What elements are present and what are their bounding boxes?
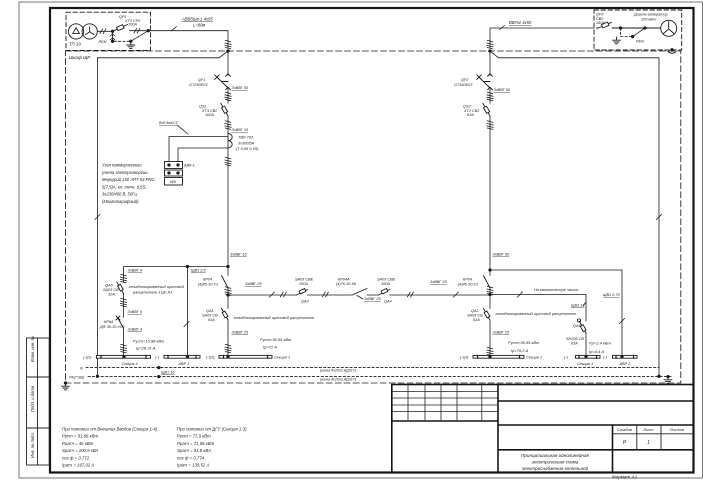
svg-text:PEN: PEN [99, 40, 107, 44]
feeder note block2 [177, 427, 247, 468]
svg-text:100А: 100А [128, 22, 137, 26]
svg-text:(-1(2)-: (-1(2)- [83, 355, 93, 359]
node at switch [111, 30, 114, 33]
PEN split wire right [490, 51, 659, 376]
svg-text:Стадия: Стадия [617, 427, 633, 432]
busbar AVR1 [164, 355, 200, 358]
svg-text:Iрасч = 139,52 А: Iрасч = 139,52 А [177, 463, 209, 468]
svg-text:ЗхВВГ 50: ЗхВВГ 50 [494, 88, 512, 92]
PEN to line [633, 28, 645, 37]
transformer box dashed [66, 12, 151, 50]
wire marks [280, 292, 286, 297]
tie line section1-2 [228, 294, 490, 296]
svg-text:ТВЛ-783: ТВЛ-783 [238, 136, 254, 140]
node left bus [226, 265, 229, 268]
svg-text:ЗхВВГ 25: ЗхВВГ 25 [493, 331, 511, 335]
cabinet ShchR dashed outline [66, 51, 681, 383]
svg-text:Wh: Wh [170, 179, 177, 184]
svg-text:QА2: QА2 [471, 309, 479, 313]
switch QR2 blade with fuse [597, 22, 661, 28]
svg-text:(-1: (-1 [564, 355, 568, 359]
switch QA4b [379, 290, 390, 296]
svg-text:(Многотарифный): (Многотарифный) [102, 199, 139, 204]
squiggle [120, 274, 126, 283]
cable squiggle [225, 40, 231, 49]
svg-text:ЗхВВГ 25: ЗхВВГ 25 [430, 280, 448, 284]
squiggle [225, 121, 231, 130]
wire transformer to switch [97, 30, 112, 32]
svg-text:КР04А: КР04А [338, 278, 350, 282]
squiggle [487, 92, 493, 101]
wire mark [656, 214, 661, 219]
svg-text:SА03 СВ: SА03 СВ [467, 314, 483, 318]
branch to QA5 [490, 295, 586, 303]
breaker QF2 [477, 74, 493, 90]
meter test box AVK-1 [165, 162, 183, 186]
svg-text:(шина 4х25х3 АД31Т): (шина 4х25х3 АД31Т) [320, 378, 356, 382]
svg-text:63А: 63А [473, 318, 480, 322]
svg-text:Секция 4: Секция 4 [122, 362, 138, 366]
bus ShchV1 horizontal [124, 267, 229, 277]
svg-text:Руст=36,65 кВт: Руст=36,65 кВт [260, 337, 292, 342]
svg-text:(Т-0,66 0,5S): (Т-0,66 0,5S) [236, 147, 259, 151]
svg-text:-незаблокированный щитовой рас: -незаблокированный щитовой расцепитель [495, 311, 576, 316]
svg-text:При питании от ДГУ (Секция 1-3: При питании от ДГУ (Секция 1-3) [177, 427, 247, 432]
svg-text:электроснабжения котельной: электроснабжения котельной [522, 465, 589, 471]
svg-text:Инв. № подл.: Инв. № подл. [30, 432, 35, 458]
riser AVR1 [187, 267, 189, 356]
svg-text:100 кВт: 100 кВт [641, 18, 656, 22]
svg-text:3х230/400 В, 50Гц: 3х230/400 В, 50Гц [102, 192, 137, 197]
svg-text:SА03 СВ: SА03 СВ [202, 314, 218, 318]
svg-text:АВР 1: АВР 1 [178, 362, 190, 366]
PEN dashed wire [621, 36, 633, 38]
svg-text:Sрасч = 100,9 кВА: Sрасч = 100,9 кВА [62, 448, 98, 453]
svg-text:Лист: Лист [642, 427, 654, 432]
svg-text:Sрасч = 91,8 кВА: Sрасч = 91,8 кВА [177, 448, 211, 453]
svg-text:ВВГнг 4х50: ВВГнг 4х50 [509, 20, 532, 25]
svg-text:Секция 1: Секция 1 [274, 355, 290, 359]
svg-text:QА1: QА1 [206, 309, 214, 313]
svg-text:Подп. и дата: Подп. и дата [30, 385, 35, 412]
svg-text:ЗхВВГ 25: ЗхВВГ 25 [245, 282, 263, 286]
svg-text:SА03 СВЕ: SА03 СВЕ [295, 278, 314, 282]
svg-text:ЩВ1 2,5: ЩВ1 2,5 [191, 269, 206, 273]
node [157, 366, 160, 369]
svg-text:На механическую часть: На механическую часть [534, 287, 578, 292]
wire PEN to line [131, 31, 149, 42]
node box exit [147, 29, 150, 32]
current transformer TA1 [228, 134, 232, 148]
svg-text:КР04: КР04 [463, 278, 472, 282]
svg-text:ТП-19: ТП-19 [69, 42, 81, 47]
svg-text:Секция 2: Секция 2 [526, 355, 543, 359]
svg-text:ОТ250Е03: ОТ250Е03 [189, 83, 208, 87]
svg-text:(-1: (-1 [603, 355, 607, 359]
wire mark [619, 318, 624, 323]
svg-text:ЗхВВГ 50: ЗхВВГ 50 [232, 86, 250, 90]
node PE earth right [666, 375, 669, 378]
svg-text:ЗхВВГ 16: ЗхВВГ 16 [230, 253, 248, 257]
breaker QF1 [215, 74, 231, 90]
svg-text:8х0,5кв2,5: 8х0,5кв2,5 [159, 121, 178, 125]
svg-text:63А: 63А [571, 342, 578, 346]
cable label lead [172, 27, 177, 31]
wire marks [100, 29, 106, 34]
node [186, 355, 189, 358]
title block small grid [392, 385, 498, 422]
node [620, 355, 623, 358]
generator box dashed [594, 10, 682, 50]
svg-text:(-1(2)-: (-1(2)- [460, 355, 470, 359]
svg-text:ЗхВВГ 4: ЗхВВГ 4 [128, 269, 143, 273]
wire mark [184, 321, 189, 326]
CT secondary wires [169, 137, 228, 162]
wire QA5 [585, 302, 587, 356]
bus PE dashed [88, 376, 671, 378]
svg-text:QА5: QА5 [573, 324, 581, 328]
wire [227, 88, 229, 103]
squiggle [120, 344, 126, 353]
wire mark [269, 292, 274, 297]
svg-text:КР04: КР04 [203, 278, 212, 282]
svg-text:Принципиальная однолинейная: Принципиальная однолинейная [521, 452, 589, 458]
breaker KR6A [116, 316, 124, 328]
svg-text:1: 1 [647, 440, 650, 446]
svg-text:Шкаф ЩР: Шкаф ЩР [69, 55, 91, 60]
svg-text:3х300/5А: 3х300/5А [238, 141, 255, 145]
node [584, 355, 587, 358]
svg-text:Руст = 77,9 кВт: Руст = 77,9 кВт [177, 434, 211, 439]
transformer T1 [69, 24, 98, 39]
svg-text:Руст=36,95 кВт: Руст=36,95 кВт [508, 340, 540, 345]
bus N dashed [86, 367, 659, 369]
switch QA2 [489, 295, 491, 358]
svg-text:Ррасч = 71,06 кВт: Ррасч = 71,06 кВт [177, 441, 215, 446]
squiggle [487, 121, 493, 130]
bus to AVR2 [490, 270, 622, 356]
svg-text:Ррасч = 46 кВт: Ррасч = 46 кВт [62, 441, 94, 446]
squiggle [225, 92, 231, 101]
svg-text:-незаблокированный щитовой рас: -незаблокированный щитовой расцепитель [233, 315, 314, 320]
svg-text:ЗхВВГ 25: ЗхВВГ 25 [232, 331, 250, 335]
wire marks [134, 28, 140, 33]
squiggle [225, 287, 231, 296]
switch QA4 [352, 289, 367, 296]
svg-text:Iр=4,4 А: Iр=4,4 А [589, 349, 604, 354]
svg-text:Руст=15,98 кВт: Руст=15,98 кВт [133, 339, 165, 344]
wire mark [453, 292, 458, 297]
svg-text:ЗхВВГ 4: ЗхВВГ 4 [128, 310, 143, 314]
title block outer [392, 385, 694, 473]
switch QA6 [117, 282, 124, 294]
svg-text:(4)76-30-66: (4)76-30-66 [336, 282, 357, 286]
switch QR1 blade with fuse [113, 25, 149, 32]
busbar Section3 [576, 355, 601, 358]
squiggle [487, 286, 493, 295]
svg-text:Iр=28,31 А: Iр=28,31 А [136, 346, 156, 351]
svg-text:ЩВ1 0,75: ЩВ1 0,75 [603, 293, 620, 297]
svg-text:63А: 63А [467, 113, 474, 117]
svg-text:cos ф = 0,772: cos ф = 0,772 [62, 455, 90, 460]
svg-text:Меркурий 150 АRТ-03 РNG: Меркурий 150 АRТ-03 РNG [102, 177, 155, 182]
squiggle [487, 347, 493, 356]
svg-text:Листов: Листов [669, 427, 685, 432]
node PEN right [657, 375, 660, 378]
node [619, 26, 622, 29]
svg-text:ЗхВВГ 4: ЗхВВГ 4 [128, 328, 143, 332]
svg-text:ЗхВВГ 50: ЗхВВГ 50 [493, 253, 511, 257]
svg-text:АВР 2: АВР 2 [619, 362, 632, 366]
svg-text:ЗхВВГ 16: ЗхВВГ 16 [232, 128, 250, 132]
svg-text:учета электроэнергии-: учета электроэнергии- [101, 170, 149, 175]
svg-text:ЗхВВГ 25: ЗхВВГ 25 [364, 297, 382, 301]
breaker KR04 left [227, 267, 229, 296]
wire to CT [227, 116, 229, 267]
wire mark [517, 292, 522, 297]
svg-text:Формат А1: Формат А1 [612, 475, 638, 480]
label leader [177, 125, 188, 134]
PEN dashed wire [114, 40, 131, 42]
svg-text:N: N [80, 367, 83, 371]
PEN link generator [620, 28, 622, 37]
svg-text:QF2: QF2 [461, 78, 469, 82]
switch QA3 [297, 290, 308, 296]
node PEN earth [129, 40, 132, 43]
fuse-switch QS2 [483, 103, 490, 116]
svg-text:PEN: PEN [636, 40, 644, 44]
node tie left [226, 293, 229, 296]
wire [123, 294, 125, 357]
svg-text:Iрасч = 167,02 А: Iрасч = 167,02 А [62, 463, 94, 468]
node [226, 355, 229, 358]
switch QA1 [227, 295, 229, 356]
generator cable wire [490, 28, 594, 48]
wire down [489, 116, 491, 270]
squiggle [225, 344, 231, 353]
svg-text:При питании от Внешних Вводов: При питании от Внешних Вводов (Секция 1-… [62, 427, 158, 432]
bond arc [668, 52, 676, 54]
wire mark [95, 214, 100, 219]
svg-text:расцепитель 1ЦЕ-А1: расцепитель 1ЦЕ-А1 [132, 290, 172, 295]
switch QA5 [580, 322, 587, 334]
busbar Section4 [97, 355, 151, 358]
fuse-switch QS1 [221, 103, 228, 116]
svg-text:QF1: QF1 [198, 78, 205, 82]
svg-text:Iр=76,3 А: Iр=76,3 А [511, 348, 529, 353]
svg-text:cos ф = 0,774: cos ф = 0,774 [177, 455, 205, 460]
svg-text:Дизель-генератор: Дизель-генератор [633, 13, 668, 17]
svg-text:Рр=2,4 кВт: Рр=2,4 кВт [589, 341, 611, 346]
svg-text:ДФ 30-30-У03: ДФ 30-30-У03 [99, 325, 125, 329]
wire marks [407, 292, 413, 297]
PEN split wire left [97, 51, 228, 376]
svg-text:SА03 СВЕ: SА03 СВЕ [377, 278, 396, 282]
svg-text:100А: 100А [299, 282, 308, 286]
ground at generator [613, 37, 621, 44]
svg-text:SА03 СВ: SА03 СВ [103, 288, 119, 292]
node [157, 375, 160, 378]
busbar AVR2 [613, 355, 638, 358]
cable squiggle [487, 40, 493, 49]
svg-text:РЕ(ГЗШ): РЕ(ГЗШ) [69, 375, 85, 379]
node right bus [488, 268, 491, 271]
feeder cable wire to riser [151, 31, 229, 48]
PEN link in transformer box [112, 31, 114, 41]
wire [489, 88, 491, 103]
cable label lead [500, 26, 505, 30]
node cabinet bond [670, 48, 673, 51]
ground at transformer [127, 42, 135, 49]
svg-text:Руст = 91,86 кВт: Руст = 91,86 кВт [62, 434, 98, 439]
left margin stamp boxes [27, 338, 50, 465]
svg-text:КР6А: КР6А [104, 320, 114, 324]
generator G1 [661, 20, 677, 36]
svg-text:5(7,5)А, кл. точн. 0,5S,: 5(7,5)А, кл. точн. 0,5S, [102, 184, 146, 189]
node [631, 35, 634, 38]
squiggle [225, 157, 231, 166]
squiggle [120, 298, 126, 307]
svg-text:АВК-1: АВК-1 [183, 164, 195, 168]
wire marks [322, 292, 328, 297]
svg-text:QА4: QА4 [384, 300, 392, 304]
wire QF1 in [227, 51, 229, 76]
svg-text:ЩВ1 16: ЩВ1 16 [161, 371, 175, 375]
busbar Section1 [219, 355, 272, 358]
busbar Section2 [473, 355, 524, 358]
svg-text:(4)85-30-У1: (4)85-30-У1 [198, 283, 218, 287]
svg-text:QА3: QА3 [301, 300, 309, 304]
svg-text:100А: 100А [381, 282, 390, 286]
svg-text:Взам. инв. №: Взам. инв. № [30, 336, 35, 362]
svg-text:(4)45-30-У1: (4)45-30-У1 [458, 283, 478, 287]
box terminal dots [167, 163, 170, 166]
svg-text:(-1(2)-: (-1(2)- [206, 355, 216, 359]
svg-text:Секция 3: Секция 3 [577, 362, 594, 366]
node PEN left [96, 375, 99, 378]
svg-text:электрическая схема: электрическая схема [532, 460, 579, 465]
ground left [62, 383, 70, 390]
metering note text [101, 163, 155, 205]
node tie right [488, 293, 491, 296]
svg-text:Узел коммерческого: Узел коммерческого [102, 163, 142, 168]
svg-text:SН206 СВ: SН206 СВ [566, 337, 584, 341]
node AVR1 riser [186, 265, 189, 268]
svg-text:(шина 4х25х3 АД31Т): (шина 4х25х3 АД31Т) [320, 369, 356, 373]
node PE earth left [64, 381, 67, 384]
node [643, 26, 646, 29]
svg-text:32А: 32А [108, 293, 115, 297]
svg-text:(-1: (-1 [155, 355, 159, 359]
svg-text:-незаблокированный щитовой: -незаблокированный щитовой [128, 284, 185, 289]
svg-text:ОТ160Е03: ОТ160Е03 [454, 83, 473, 87]
title block stadia row [613, 425, 694, 450]
svg-text:АВБбШв-1 4х95: АВБбШв-1 4х95 [181, 16, 213, 21]
node [488, 355, 491, 358]
svg-text:Iр=72 А: Iр=72 А [263, 345, 277, 350]
breaker KR04 right [489, 270, 491, 295]
feeder note block1 [62, 427, 158, 468]
svg-text:L=80м: L=80м [193, 22, 205, 27]
node cable entry left [226, 49, 229, 52]
svg-text:63А: 63А [208, 318, 215, 322]
node cable entry right [488, 49, 491, 52]
node [122, 355, 125, 358]
ground right [664, 377, 672, 384]
svg-text:QА6: QА6 [105, 284, 113, 288]
wire QF2 in [489, 51, 491, 76]
svg-text:100А: 100А [205, 113, 214, 117]
